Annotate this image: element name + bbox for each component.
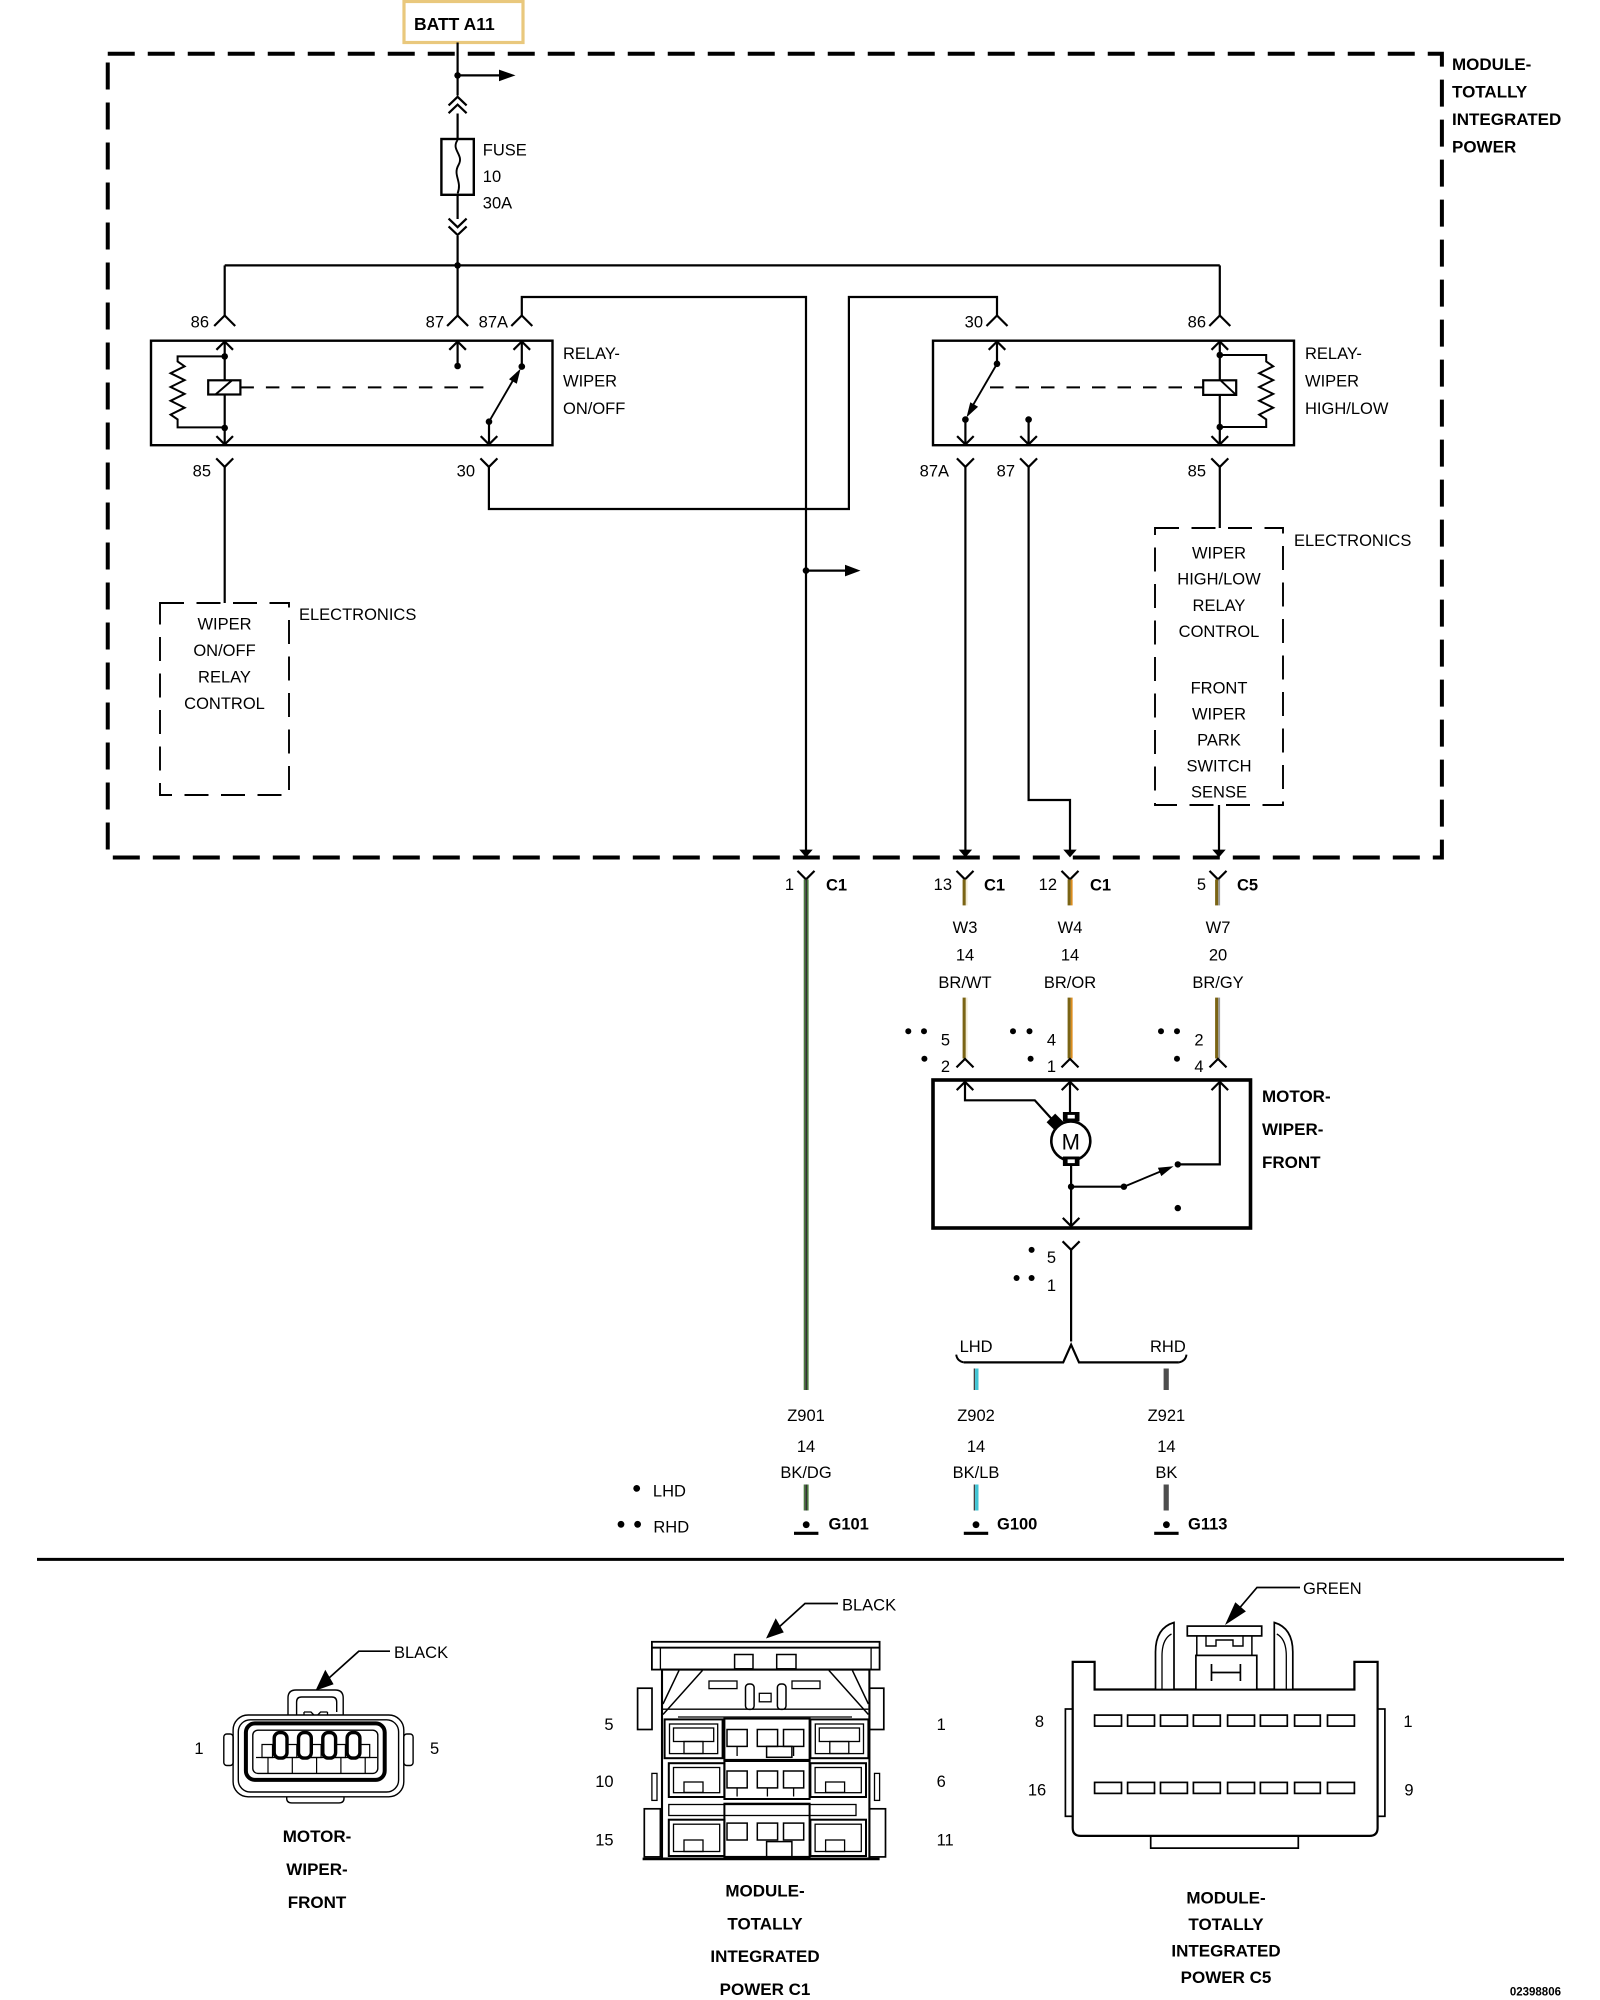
- park switch open contact dot: [1175, 1205, 1181, 1211]
- svg-text:4: 4: [1194, 1058, 1203, 1076]
- svg-text:C1: C1: [826, 877, 847, 895]
- wire motor common to LHD/RHD split: [1070, 1250, 1072, 1342]
- wire left relay 87A up over to C1 pin 1 column: [522, 297, 806, 855]
- ground G101: [803, 1521, 810, 1528]
- svg-text:RHD: RHD: [1150, 1338, 1186, 1356]
- svg-text:FRONT: FRONT: [1262, 1153, 1321, 1172]
- svg-text:BR/GY: BR/GY: [1192, 974, 1243, 992]
- svg-text:RELAY-: RELAY-: [1305, 345, 1362, 363]
- svg-text:FUSE: FUSE: [483, 142, 527, 160]
- svg-text:GREEN: GREEN: [1303, 1580, 1362, 1598]
- svg-text:ELECTRONICS: ELECTRONICS: [299, 606, 416, 624]
- connector C pin row 2: [1095, 1782, 1122, 1793]
- svg-text:87A: 87A: [479, 314, 508, 332]
- left relay switch arm: [489, 373, 518, 422]
- wire W4 lower run: [1068, 998, 1073, 1059]
- wire park switch sense to C5 pin 5: [1218, 805, 1220, 855]
- connector half pin 86 left relay: [214, 316, 235, 327]
- svg-text:C5: C5: [1237, 877, 1258, 895]
- svg-text:1: 1: [937, 1716, 946, 1734]
- connector half pin 87 right relay: [1020, 458, 1037, 467]
- svg-text:1: 1: [785, 876, 794, 894]
- connector B terminal row 1: [665, 1719, 723, 1758]
- svg-text:2: 2: [1194, 1032, 1203, 1050]
- electronics box wiper high/low relay control / park switch sense: [1155, 528, 1283, 805]
- wire Z901 lower run: [804, 1485, 809, 1511]
- wire W3 lower run: [963, 998, 968, 1059]
- connector A seal ring: [246, 1723, 385, 1780]
- svg-text:MODULE-: MODULE-: [725, 1882, 804, 1901]
- motor pin legend 5/2: [905, 1028, 911, 1034]
- connector half pin 87 left relay: [447, 316, 468, 327]
- svg-text:POWER: POWER: [1452, 138, 1516, 157]
- svg-text:MOTOR-: MOTOR-: [1262, 1087, 1331, 1106]
- wire Z901 14 BK/DG (black/dark green) upper run: [804, 879, 809, 1390]
- svg-text:G101: G101: [829, 1516, 869, 1534]
- svg-text:CONTROL: CONTROL: [1179, 623, 1260, 641]
- svg-text:02398806: 02398806: [1510, 1987, 1561, 1999]
- wire Z902 lower run: [974, 1485, 979, 1511]
- motor pin legend 2/4: [1158, 1028, 1164, 1034]
- module TIPM dashed outline: [108, 54, 1442, 858]
- wire leader to black C1 connector: [778, 1604, 838, 1629]
- connector B shoulders: [663, 1670, 703, 1714]
- connector face MOTOR-WIPER-FRONT: [194, 1644, 448, 1912]
- svg-text:10: 10: [483, 168, 501, 186]
- svg-text:SWITCH: SWITCH: [1186, 758, 1251, 776]
- connector half pin 30 left relay: [480, 458, 497, 467]
- svg-text:BK: BK: [1155, 1464, 1177, 1482]
- wire Z921 14 BK (black) upper run: [1164, 1369, 1169, 1391]
- svg-text:WIPER: WIPER: [1192, 545, 1246, 563]
- off-page arrow right from 87A output: [806, 569, 845, 571]
- svg-text:RELAY: RELAY: [198, 669, 251, 687]
- svg-text:5: 5: [430, 1740, 439, 1758]
- connector half at motor pin 2: [957, 1059, 974, 1068]
- svg-text:14: 14: [967, 1438, 985, 1456]
- svg-text:TOTALLY: TOTALLY: [1452, 83, 1528, 102]
- junction dot on 87A output wire: [803, 567, 810, 574]
- connector half at motor pin 4: [1210, 1059, 1227, 1068]
- junction dot at battery feed: [454, 72, 461, 79]
- wire to fuse: [457, 114, 459, 140]
- connector half pin 85 right relay: [1211, 458, 1228, 467]
- wire bus to right relay pin 86: [1219, 265, 1221, 315]
- connector C1 pin 12 at module exit: [1062, 871, 1079, 880]
- left relay resistor: [171, 356, 225, 427]
- off-page double chevron up: [449, 97, 467, 106]
- off-page arrow right from battery feed: [458, 74, 499, 76]
- svg-text:10: 10: [595, 1773, 613, 1791]
- connector C5 pin 5 at module exit: [1210, 871, 1227, 880]
- svg-text:INTEGRATED: INTEGRATED: [710, 1947, 819, 1966]
- svg-text:1: 1: [194, 1740, 203, 1758]
- left relay pin 87 internal: [457, 342, 459, 367]
- svg-text:5: 5: [604, 1716, 613, 1734]
- right relay coil control dashed line: [990, 386, 1203, 388]
- wire W3 14 BR/WT upper run: [963, 879, 968, 905]
- svg-text:87: 87: [426, 314, 444, 332]
- svg-text:Z901: Z901: [787, 1407, 825, 1425]
- svg-text:MODULE-: MODULE-: [1186, 1888, 1265, 1907]
- motor M1 armature: [1064, 1113, 1079, 1121]
- svg-text:5: 5: [1197, 876, 1206, 894]
- connector B terminal row 2: [669, 1763, 725, 1797]
- svg-text:RELAY-: RELAY-: [563, 345, 620, 363]
- svg-text:85: 85: [1188, 463, 1206, 481]
- motor pin 2 internal wire to brush: [965, 1082, 1052, 1119]
- svg-text:WIPER: WIPER: [1305, 373, 1359, 391]
- ground G100: [973, 1521, 980, 1528]
- svg-text:HIGH/LOW: HIGH/LOW: [1177, 571, 1261, 589]
- svg-text:6: 6: [937, 1773, 946, 1791]
- svg-text:85: 85: [193, 463, 211, 481]
- svg-text:9: 9: [1404, 1782, 1413, 1800]
- arrow into module bottom edge at C1-1: [799, 850, 812, 858]
- connector half pin 87A right relay: [957, 458, 974, 467]
- wire bus to left relay pin 87: [457, 265, 459, 315]
- left relay pin 86 internal: [224, 342, 226, 357]
- connector C body: [1073, 1662, 1378, 1836]
- svg-text:TOTALLY: TOTALLY: [727, 1915, 803, 1934]
- svg-text:W3: W3: [953, 919, 978, 937]
- right relay pin 86 internal: [1219, 342, 1221, 356]
- svg-text:30: 30: [965, 314, 983, 332]
- separator line: [37, 1558, 1564, 1561]
- connector C latch tower: [1156, 1623, 1175, 1690]
- svg-text:LHD: LHD: [960, 1338, 993, 1356]
- wire bus to left relay pin 86: [224, 265, 226, 315]
- wire right relay 87 to C1 pin 12: [1029, 467, 1070, 855]
- svg-text:WIPER-: WIPER-: [286, 1860, 347, 1879]
- wire Z921 lower run: [1164, 1485, 1169, 1511]
- right relay resistor: [1220, 355, 1273, 427]
- left relay pin 87A internal: [521, 342, 523, 367]
- svg-text:30: 30: [457, 463, 475, 481]
- park switch arm: [1124, 1168, 1168, 1186]
- svg-text:WIPER: WIPER: [197, 616, 251, 634]
- svg-text:Z921: Z921: [1148, 1407, 1186, 1425]
- wire right relay 87A to C1 pin 13: [964, 467, 966, 855]
- motor pin 1 internal wire: [1069, 1082, 1071, 1113]
- svg-text:BATT A11: BATT A11: [414, 14, 495, 34]
- connector half pin 30 right relay: [987, 316, 1008, 327]
- svg-text:12: 12: [1039, 876, 1057, 894]
- svg-text:HIGH/LOW: HIGH/LOW: [1305, 400, 1389, 418]
- svg-text:ELECTRONICS: ELECTRONICS: [1294, 532, 1411, 550]
- svg-text:MOTOR-: MOTOR-: [283, 1827, 352, 1846]
- svg-text:ON/OFF: ON/OFF: [563, 400, 625, 418]
- motor wiper front box: [933, 1080, 1251, 1228]
- svg-text:BLACK: BLACK: [842, 1597, 896, 1615]
- motor common wire down: [1070, 1165, 1072, 1226]
- svg-text:86: 86: [1188, 314, 1206, 332]
- connector B body: [662, 1670, 869, 1859]
- relay K2 wiper high/low box: [933, 341, 1294, 446]
- svg-text:SENSE: SENSE: [1191, 784, 1247, 802]
- motor brush diamond: [1047, 1114, 1064, 1131]
- svg-text:POWER C5: POWER C5: [1181, 1968, 1272, 1987]
- svg-text:2: 2: [941, 1058, 950, 1076]
- svg-text:W4: W4: [1058, 919, 1083, 937]
- svg-text:MODULE-: MODULE-: [1452, 55, 1531, 74]
- svg-text:30A: 30A: [483, 195, 512, 213]
- svg-text:87: 87: [997, 463, 1015, 481]
- right relay coil: [1219, 355, 1221, 380]
- connector half pin 85 left relay: [216, 458, 233, 467]
- svg-text:G100: G100: [997, 1516, 1037, 1534]
- wire leader to black connector: [329, 1651, 390, 1678]
- svg-text:BK/DG: BK/DG: [780, 1464, 831, 1482]
- wire left relay 85 to control box: [224, 467, 226, 603]
- svg-text:14: 14: [797, 1438, 815, 1456]
- connector C pin row 1: [1095, 1715, 1122, 1726]
- wire below fuse: [457, 195, 459, 219]
- connector half below motor pin 5/1: [1063, 1241, 1080, 1250]
- wire right relay 85 to control box: [1219, 467, 1221, 528]
- svg-text:20: 20: [1209, 947, 1227, 965]
- connector A top tab: [288, 1690, 343, 1716]
- wire W7 20 BR/GY upper run: [1215, 879, 1220, 905]
- svg-text:1: 1: [1047, 1058, 1056, 1076]
- svg-text:1: 1: [1403, 1713, 1412, 1731]
- ground G113: [1163, 1521, 1170, 1528]
- motor bottom pin legend 5/1: [1029, 1247, 1035, 1253]
- svg-text:TOTALLY: TOTALLY: [1188, 1915, 1264, 1934]
- svg-text:1: 1: [1047, 1277, 1056, 1295]
- wire left relay 30 to right relay 30: [489, 297, 997, 509]
- connector B terminal row 3: [669, 1805, 856, 1816]
- connector face MODULE TIPM C1: [595, 1597, 954, 2000]
- svg-text:BR/WT: BR/WT: [938, 974, 991, 992]
- right relay pin 87 internal: [1025, 416, 1032, 423]
- module TIPM label: [1452, 55, 1561, 157]
- svg-text:Z902: Z902: [957, 1407, 995, 1425]
- svg-text:5: 5: [941, 1032, 950, 1050]
- svg-text:FRONT: FRONT: [288, 1893, 347, 1912]
- connector C1 pin 1 at module exit: [798, 871, 815, 880]
- electronics box wiper on/off relay control: [160, 603, 289, 795]
- svg-text:C1: C1: [1090, 877, 1111, 895]
- svg-text:BR/OR: BR/OR: [1044, 974, 1096, 992]
- svg-text:W7: W7: [1206, 919, 1231, 937]
- svg-text:16: 16: [1028, 1782, 1046, 1800]
- junction dot on bus: [454, 262, 461, 269]
- LHD/RHD option split: [964, 1345, 1179, 1363]
- left relay coil control dashed line: [240, 386, 495, 388]
- wire Z902 14 BK/LB (black/light blue) upper run: [974, 1369, 979, 1391]
- park switch common: [1071, 1186, 1124, 1188]
- svg-text:RHD: RHD: [653, 1519, 689, 1537]
- svg-text:14: 14: [956, 947, 974, 965]
- connector half pin 87A left relay: [511, 316, 532, 327]
- svg-text:8: 8: [1035, 1713, 1044, 1731]
- svg-text:5: 5: [1047, 1249, 1056, 1267]
- svg-text:87A: 87A: [920, 463, 949, 481]
- svg-text:ON/OFF: ON/OFF: [193, 642, 255, 660]
- right relay switch arm: [970, 364, 998, 411]
- svg-text:13: 13: [934, 876, 952, 894]
- connector face MODULE TIPM C5: [1028, 1580, 1414, 1987]
- svg-text:LHD: LHD: [653, 1483, 686, 1501]
- fuse 10 30A: [441, 139, 473, 195]
- off-page double chevron down: [449, 219, 467, 228]
- connector A shell: [233, 1715, 404, 1797]
- svg-text:86: 86: [191, 314, 209, 332]
- svg-text:BK/LB: BK/LB: [953, 1464, 1000, 1482]
- svg-text:FRONT: FRONT: [1191, 680, 1248, 698]
- wire W7 lower run: [1215, 998, 1220, 1059]
- svg-text:WIPER: WIPER: [1192, 706, 1246, 724]
- wire W4 14 BR/OR upper run: [1068, 879, 1073, 905]
- svg-text:WIPER-: WIPER-: [1262, 1120, 1323, 1139]
- svg-text:4: 4: [1047, 1032, 1056, 1050]
- connector A pins 1-5: [274, 1733, 287, 1759]
- svg-text:14: 14: [1157, 1438, 1175, 1456]
- svg-text:11: 11: [937, 1832, 954, 1850]
- svg-text:BLACK: BLACK: [394, 1644, 448, 1662]
- right relay pin 30 internal: [996, 342, 998, 364]
- svg-text:15: 15: [595, 1832, 613, 1850]
- LHD/RHD dot legend: [633, 1485, 640, 1492]
- node BATT A11 (fuse feed callout box): [404, 2, 523, 43]
- svg-text:M: M: [1062, 1130, 1080, 1155]
- svg-text:RELAY: RELAY: [1193, 597, 1246, 615]
- svg-text:CONTROL: CONTROL: [184, 695, 265, 713]
- left relay coil: [224, 356, 226, 380]
- svg-text:G113: G113: [1188, 1516, 1227, 1534]
- connector A cavity grid: [262, 1745, 370, 1758]
- relay K1 wiper on/off box: [151, 341, 553, 446]
- connector half pin 86 right relay: [1209, 316, 1230, 327]
- connector half at motor pin 1: [1062, 1059, 1079, 1068]
- svg-text:PARK: PARK: [1197, 732, 1241, 750]
- park switch contact to pin 4: [1178, 1082, 1220, 1165]
- svg-text:C1: C1: [984, 877, 1005, 895]
- bus wire from fuse to both relays: [225, 264, 1220, 266]
- svg-text:WIPER: WIPER: [563, 373, 617, 391]
- svg-text:POWER C1: POWER C1: [720, 1980, 811, 1999]
- svg-text:INTEGRATED: INTEGRATED: [1171, 1942, 1280, 1961]
- svg-text:INTEGRATED: INTEGRATED: [1452, 110, 1561, 129]
- connector B top bar and flange: [652, 1642, 880, 1648]
- svg-text:14: 14: [1061, 947, 1079, 965]
- wire from BATT A11 down into module: [457, 43, 459, 96]
- connector C1 pin 13 at module exit: [957, 871, 974, 880]
- wire leader to green C5 connector: [1237, 1588, 1300, 1612]
- motor pin legend 4/1: [1010, 1028, 1016, 1034]
